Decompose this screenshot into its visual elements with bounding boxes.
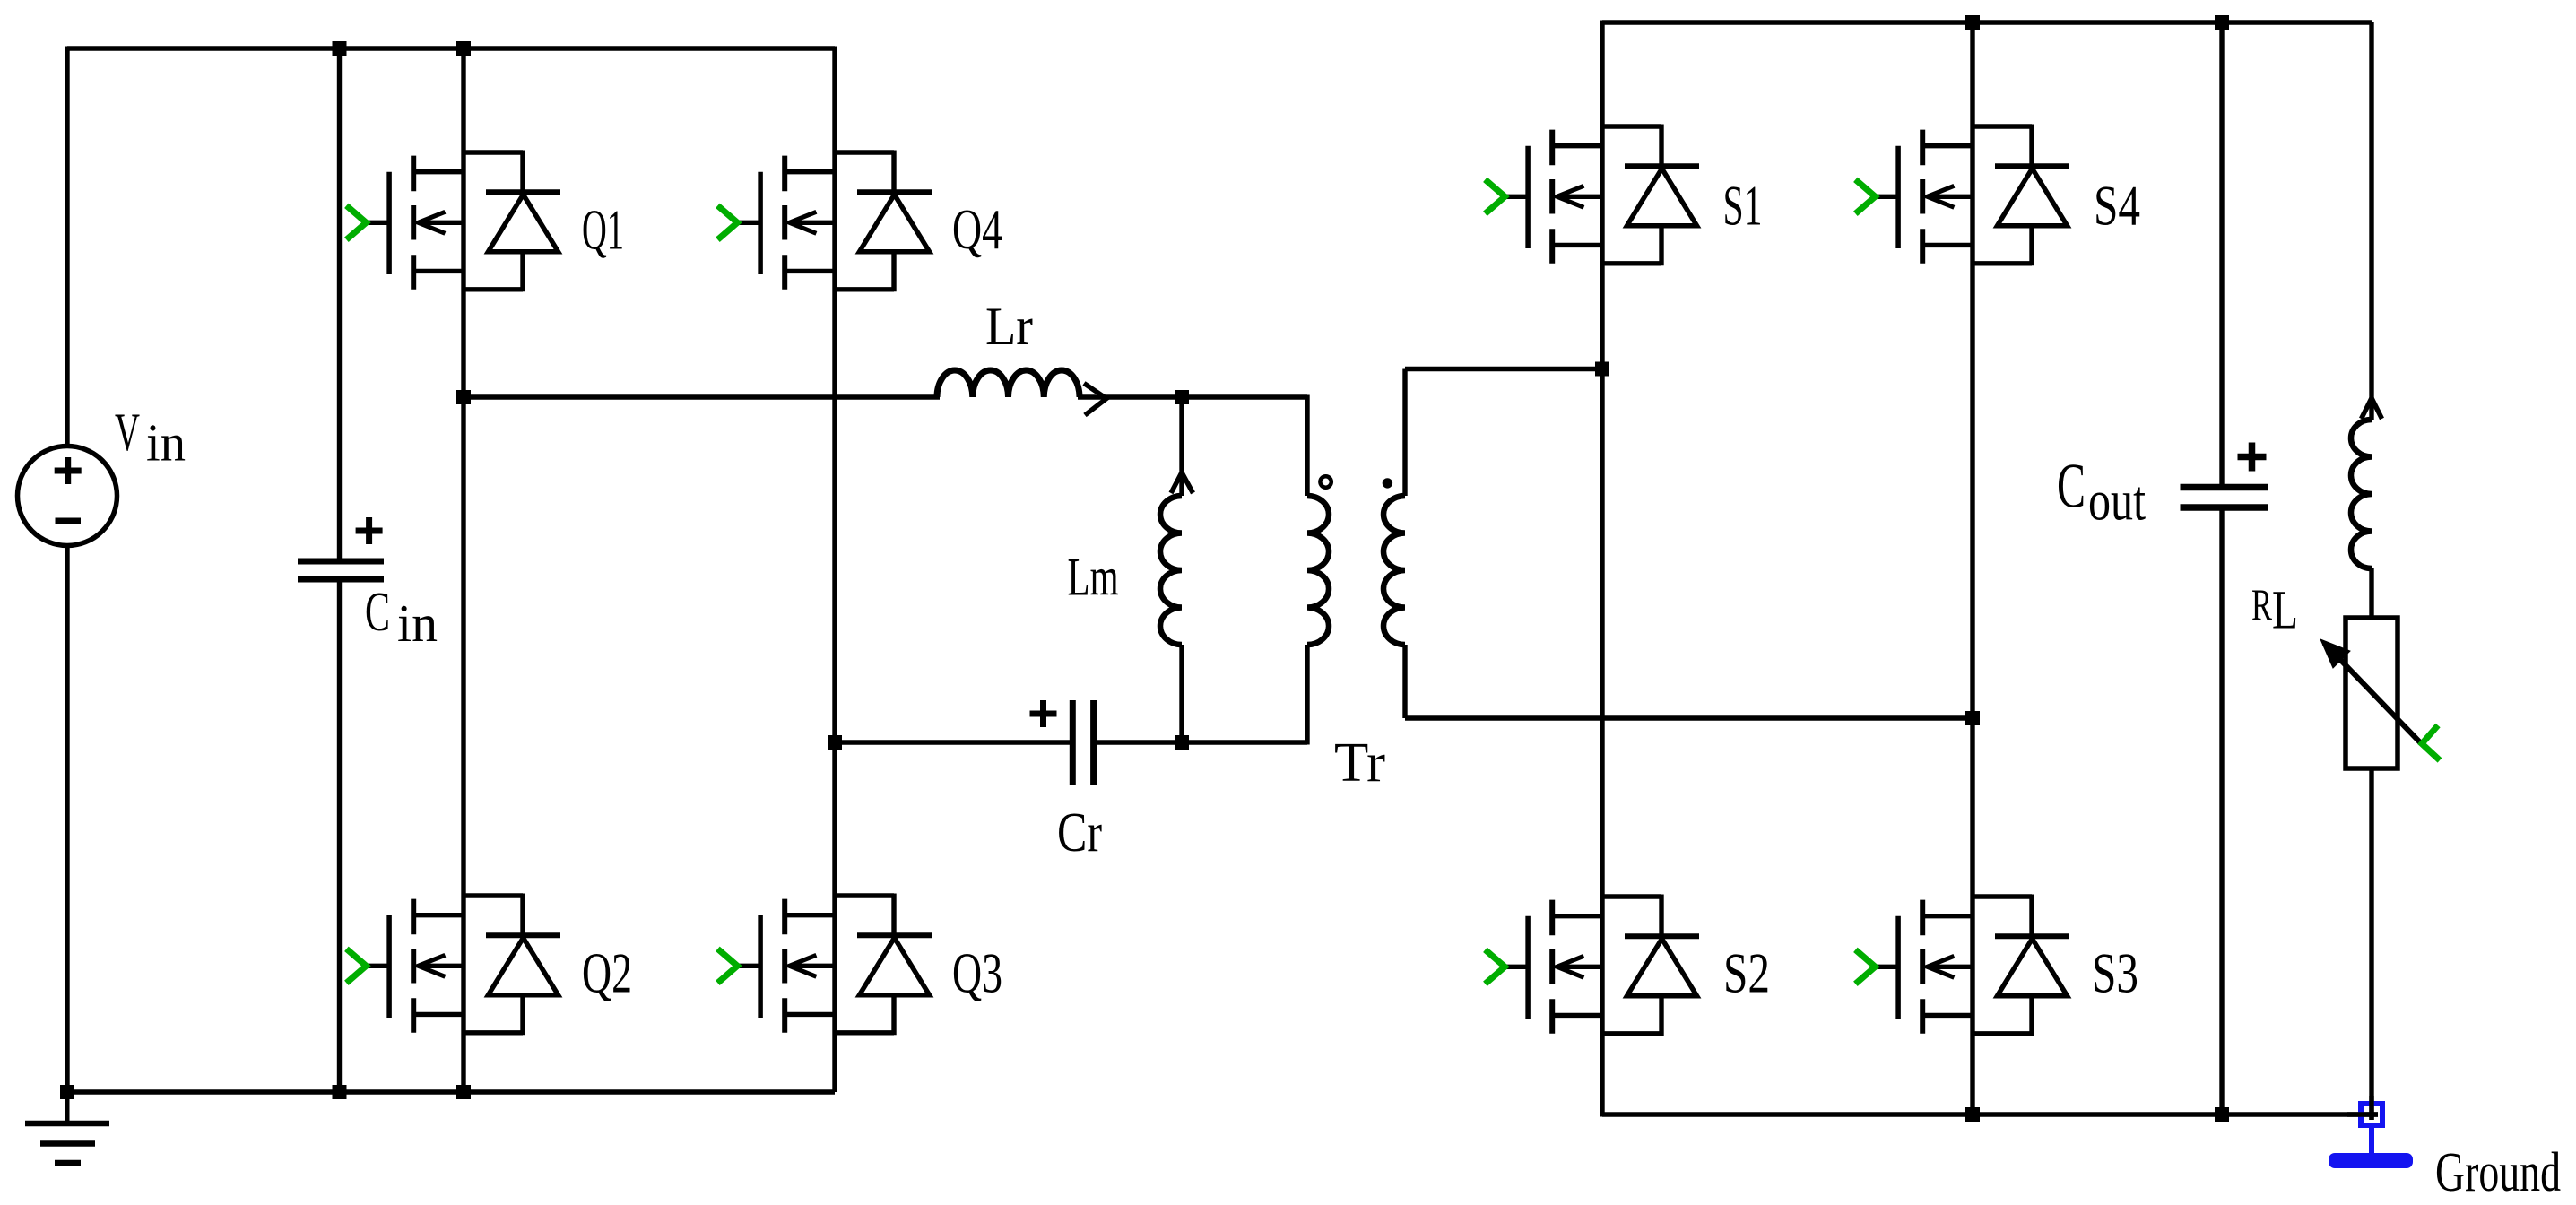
transformer Tr primary dot: [1320, 476, 1331, 487]
wire Lm bottom: [1179, 645, 1184, 742]
variable-resistor arrowhead: [2320, 639, 2350, 668]
wire resistor to ground: [2369, 768, 2373, 1120]
wire Cout branch lower: [2219, 511, 2224, 1115]
wire leg S1/S2: [1600, 21, 1604, 1117]
svg-text:Q1: Q1: [582, 198, 624, 262]
wire primary coil top vertical: [1305, 395, 1309, 497]
wire Cout branch upper: [2219, 22, 2224, 484]
transistor Q3 (N-MOSFET with body diode): [717, 894, 932, 1036]
wire Cin branch lower: [337, 579, 342, 1092]
variable-resistor green terminal: [2422, 725, 2440, 760]
transistor Q4 (N-MOSFET with body diode): [717, 151, 932, 292]
node: S4 drain junction: [1965, 15, 1980, 30]
wire bridge midpoint A to Lr: [464, 394, 940, 399]
svg-text:S1: S1: [1723, 173, 1763, 237]
svg-text:Ground: Ground: [2435, 1142, 2561, 1203]
svg-text:Q2: Q2: [582, 941, 632, 1005]
capacitor Cout: [2181, 484, 2268, 491]
wire node B to transformer primary bottom: [1182, 740, 1307, 744]
polarity + of Cout: [2238, 443, 2267, 472]
inductor Lr: [937, 370, 1080, 397]
wire Cin branch upper: [337, 48, 342, 561]
transistor S4 (N-MOSFET with body diode): [1855, 125, 2069, 266]
wire primary bottom rail: [67, 1089, 835, 1094]
transistor Q2 (N-MOSFET with body diode): [346, 894, 560, 1036]
transistor S1 (N-MOSFET with body diode): [1485, 125, 1699, 266]
svg-text:Q4: Q4: [952, 197, 1002, 261]
transformer Tr primary winding: [1307, 496, 1329, 645]
wire Lr to node A: [1078, 394, 1182, 399]
inductor Lm: [1160, 496, 1182, 645]
wire Cr rail (midpoint B to Cr): [835, 740, 1071, 744]
wire primary coil bottom vertical: [1305, 645, 1309, 745]
wire secondary top corner vertical: [1402, 369, 1407, 497]
wire node A to transformer primary top: [1182, 394, 1307, 399]
wire primary top rail: [67, 46, 835, 50]
svg-text:S4: S4: [2094, 173, 2140, 237]
node B (Cr/Lm/primary bottom): [1175, 735, 1189, 750]
resistor RL (variable): [2346, 618, 2398, 768]
svg-text:S2: S2: [1723, 941, 1770, 1005]
svg-text:Lr: Lr: [985, 297, 1033, 356]
wire Lm top (with current arrow): [1179, 397, 1184, 496]
output filter inductor: [2351, 420, 2372, 568]
node: Vin bottom junction: [60, 1085, 74, 1099]
wire leg Q1/Q2: [461, 48, 465, 1092]
svg-text:Q3: Q3: [952, 941, 1002, 1005]
node A (Lr/Lm/primary top): [1175, 390, 1189, 404]
node: Cin bottom junction: [333, 1085, 347, 1099]
transistor S2 (N-MOSFET with body diode): [1485, 895, 1699, 1036]
wire secondary top horizontal to S1 midpoint: [1405, 367, 1602, 371]
wire secondary bottom corner vertical: [1402, 645, 1407, 718]
transformer Tr secondary dot: [1383, 478, 1392, 488]
wire leg Q4/Q3: [832, 47, 837, 1093]
svg-text:S3: S3: [2092, 941, 2138, 1005]
node: bridge midpoint B (Q4/Q3): [828, 735, 842, 750]
ground symbol (left, earth): [65, 1092, 70, 1121]
polarity + of Cr: [1030, 700, 1057, 727]
svg-text:Cr: Cr: [1057, 802, 1102, 863]
node: S4 midpoint junction: [1965, 711, 1980, 725]
ground terminal (right, blue): [2361, 1104, 2382, 1125]
node: S3 source junction: [1965, 1107, 1980, 1122]
svg-text:Lm: Lm: [1068, 548, 1119, 607]
node: Q1 drain junction: [456, 41, 471, 56]
svg-text:Tr: Tr: [1334, 733, 1385, 793]
svg-text:Vin: Vin: [115, 403, 186, 472]
wire left vertical (Vin branch upper): [65, 47, 69, 447]
wire Cr to node B: [1096, 740, 1182, 744]
node: Q2 source junction: [456, 1085, 471, 1099]
wire RL branch upper (with current arrow): [2369, 22, 2373, 420]
wire left vertical (Vin branch lower): [65, 545, 69, 1092]
wire secondary bottom horizontal to S4 midpoint: [1405, 715, 1973, 720]
node: S1 midpoint junction: [1595, 362, 1609, 377]
node: Cout bottom junction: [2215, 1107, 2229, 1122]
current arrow on RL branch (up): [2362, 398, 2382, 419]
capacitor Cin: [298, 559, 384, 565]
wire leg S4/S3: [1970, 22, 1974, 1114]
wire tips over ground terminal: [2347, 1112, 2378, 1116]
transistor Q1 (N-MOSFET with body diode): [346, 151, 560, 292]
node: bridge midpoint A (Q1/Q2): [456, 390, 471, 404]
wire RL coil to resistor: [2369, 568, 2373, 618]
wire secondary top rail: [1602, 20, 2372, 24]
wire secondary bottom rail: [1602, 1112, 2378, 1116]
transistor S3 (N-MOSFET with body diode): [1855, 895, 2069, 1036]
transformer Tr secondary winding: [1383, 496, 1405, 645]
current arrow after Lr: [1084, 384, 1106, 416]
node: Cin top junction: [333, 41, 347, 56]
capacitor Cr: [1070, 700, 1076, 785]
current arrow on Lm (up): [1171, 472, 1193, 493]
variable-resistor arrow diagonal: [2324, 643, 2421, 743]
voltage source Vin: [18, 446, 117, 546]
polarity + of Cin: [356, 517, 383, 544]
node: Cout top junction: [2215, 15, 2229, 30]
